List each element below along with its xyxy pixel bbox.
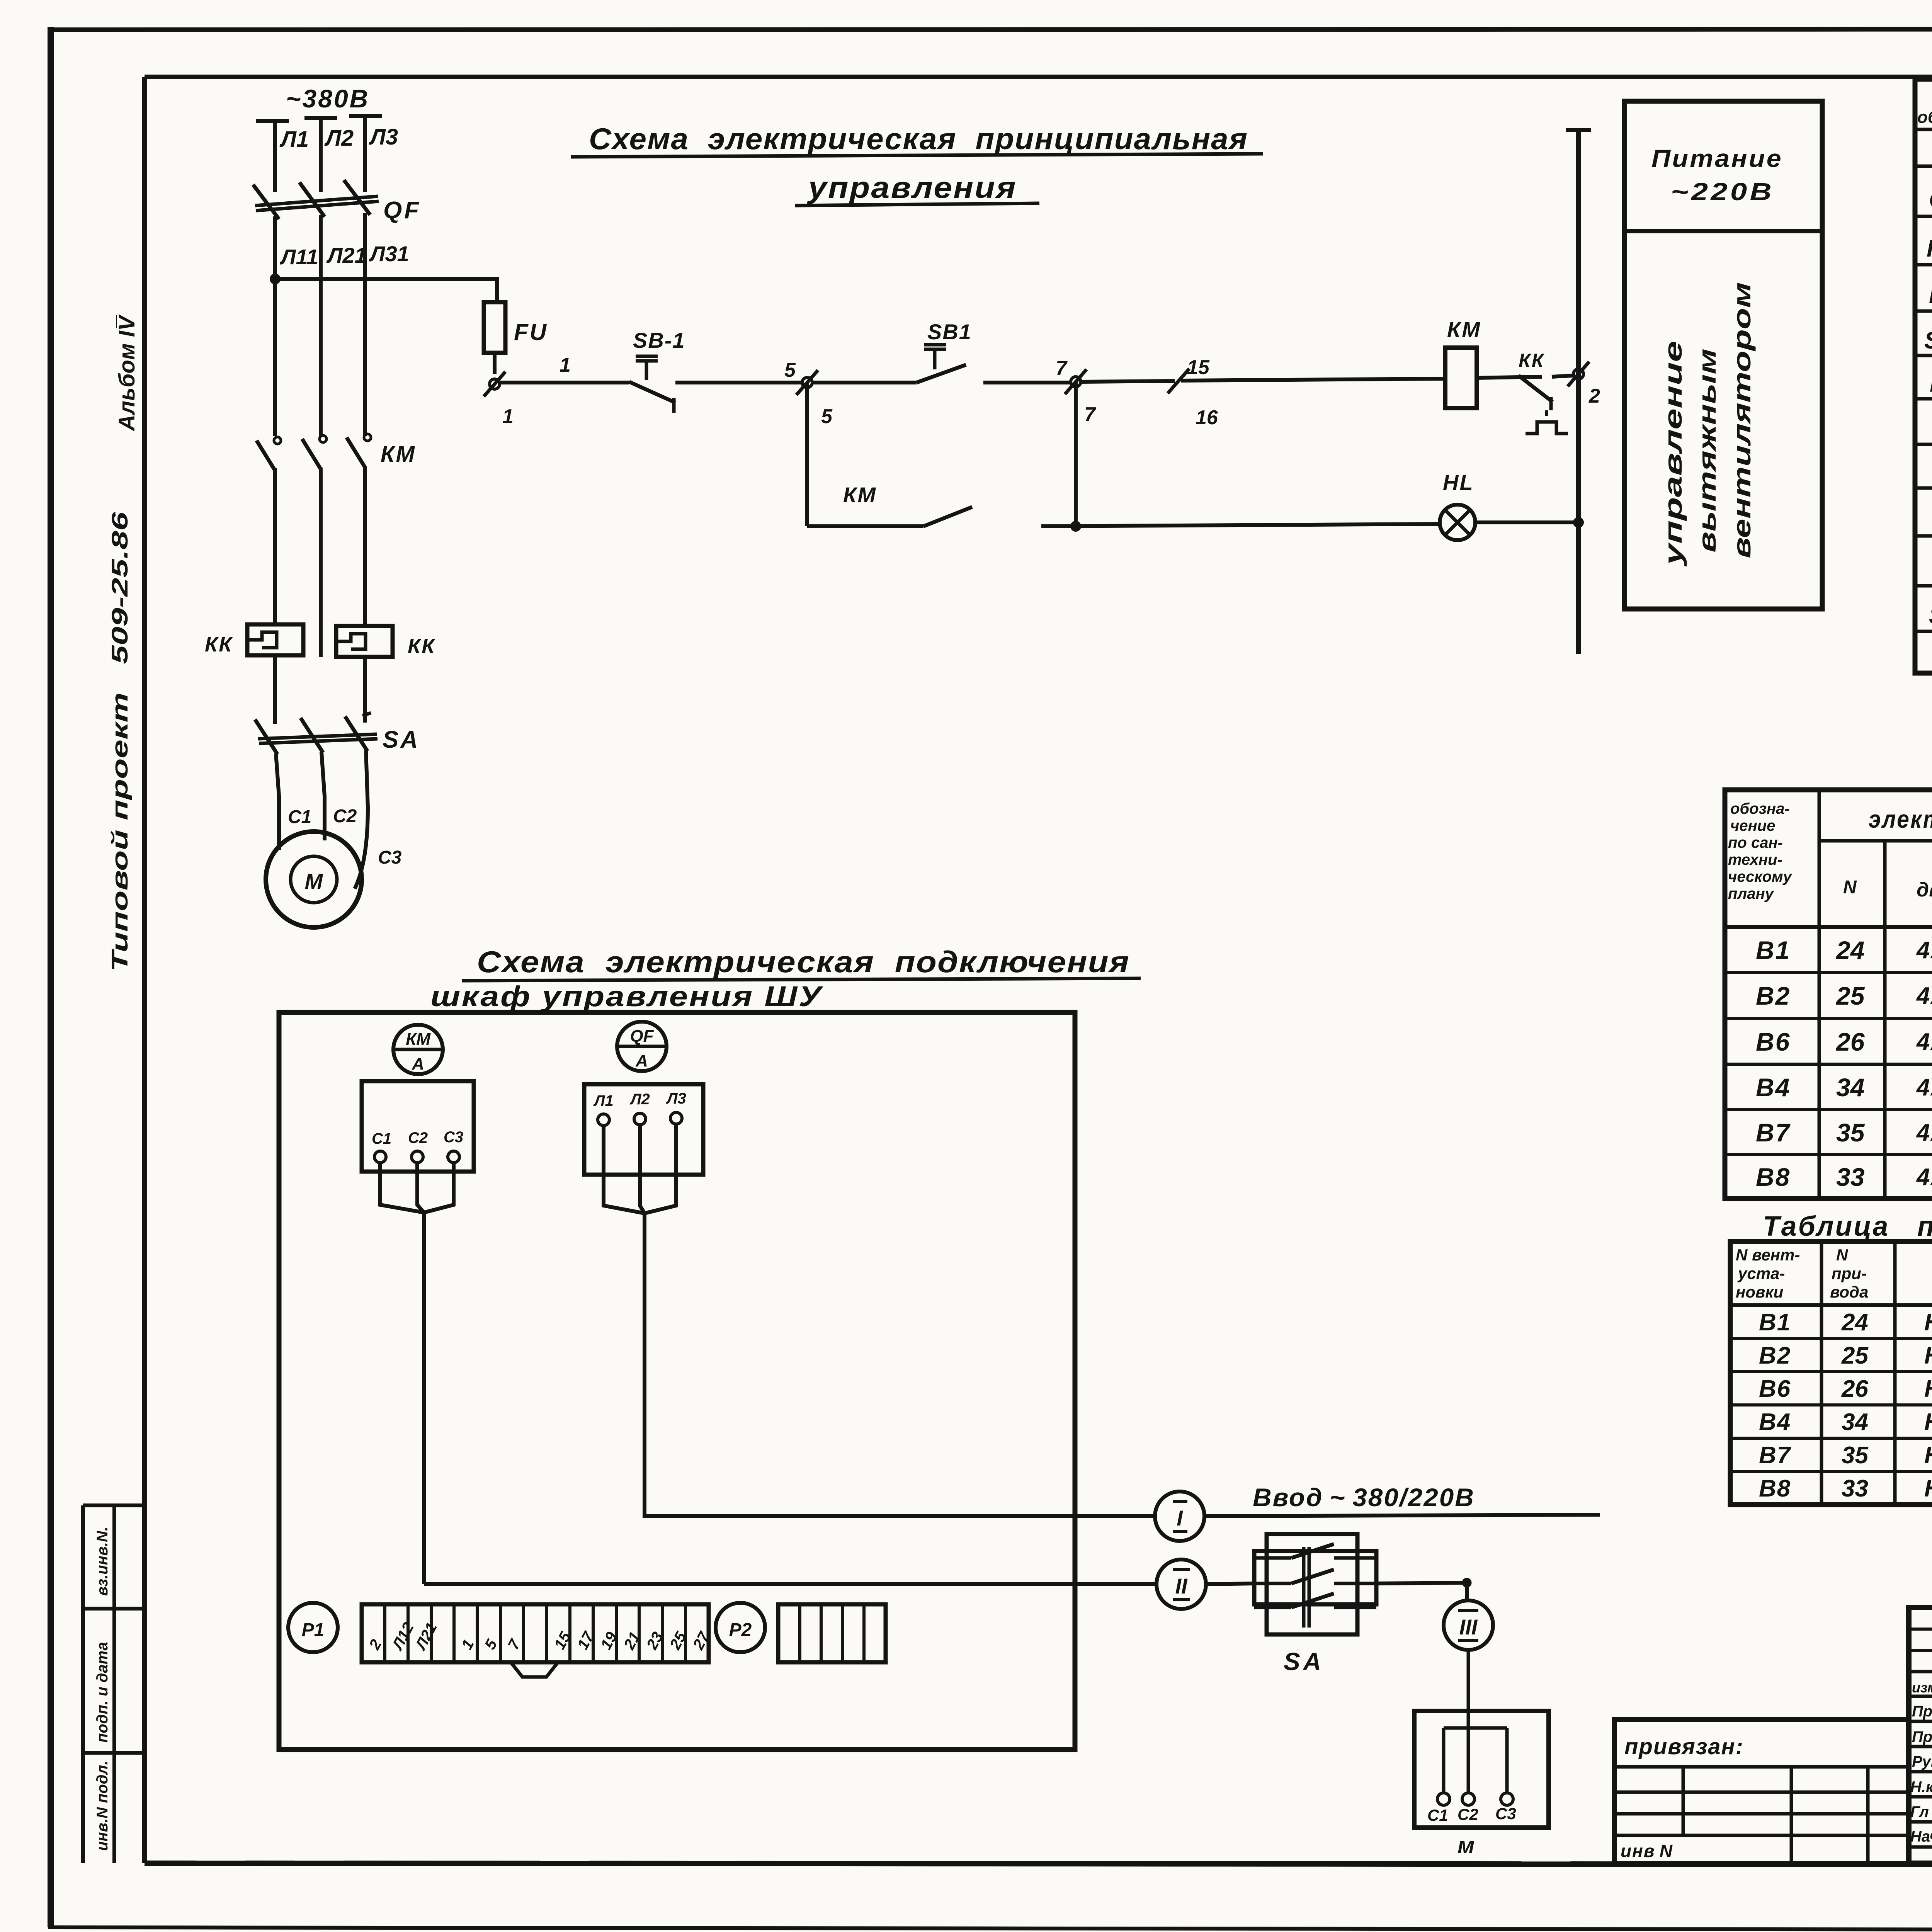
svg-text:Н25-1: Н25-1	[1924, 1342, 1932, 1369]
wire KM out (feeder II)	[424, 1582, 1157, 1586]
wire phase A lower	[273, 655, 277, 724]
svg-text:Альбом IV̅: Альбом IV̅	[114, 314, 139, 432]
svg-text:QF: QF	[1929, 187, 1932, 213]
cable row В6	[1759, 1376, 1932, 1402]
phase feeder L1	[256, 121, 309, 192]
svg-text:КМ: КМ	[1927, 235, 1932, 262]
cable marker KM/A	[393, 1025, 443, 1074]
application row В1	[1756, 927, 1932, 972]
svg-text:управление: управление	[1659, 341, 1687, 567]
supply box Pitanie ~220V	[1624, 101, 1822, 609]
svg-text:4АА63АЧ: 4АА63АЧ	[1916, 1029, 1932, 1055]
svg-text:А: А	[635, 1051, 648, 1070]
svg-text:Н24-1: Н24-1	[1924, 1309, 1932, 1336]
svg-text:Л21: Л21	[326, 243, 367, 267]
svg-text:С2: С2	[408, 1129, 428, 1146]
wire node5 to SB1	[812, 381, 917, 384]
svg-text:Гл спец: Гл спец	[1910, 1803, 1932, 1820]
svg-text:Питание: Питание	[1651, 145, 1783, 172]
wire lower branch left drop	[805, 383, 809, 526]
wire C3 to motor	[355, 750, 402, 889]
svg-text:25: 25	[1835, 981, 1865, 1010]
cable marker QF/A	[617, 1022, 667, 1071]
switch SA (3-pole)	[255, 713, 420, 754]
terminal strip 1	[362, 1604, 713, 1677]
svg-text:16: 16	[1196, 406, 1218, 429]
svg-text:КМ: КМ	[406, 1030, 431, 1049]
node 7	[1056, 357, 1096, 426]
spec row SA	[1929, 590, 1932, 634]
svg-text:15: 15	[1187, 356, 1210, 379]
wire C1 to motor	[276, 753, 311, 850]
svg-text:5: 5	[784, 359, 796, 381]
svg-text:N вент-: N вент-	[1736, 1246, 1800, 1264]
svg-text:Р1: Р1	[302, 1620, 325, 1640]
svg-text:1: 1	[560, 354, 571, 376]
specification table grid	[1915, 79, 1932, 673]
contactor main contacts KM	[257, 434, 416, 471]
svg-text:Л1: Л1	[593, 1092, 614, 1109]
svg-text:В6: В6	[1759, 1376, 1791, 1402]
svg-text:подп. и дата: подп. и дата	[94, 1642, 111, 1743]
svg-text:по сан-: по сан-	[1728, 834, 1783, 851]
svg-text:4АА63АЧ: 4АА63АЧ	[1916, 937, 1932, 964]
wire control feed to FU	[275, 279, 497, 302]
application table column headers	[1728, 794, 1932, 927]
svg-text:N: N	[1843, 877, 1857, 898]
svg-text:КК: КК	[1519, 350, 1545, 371]
svg-text:Н33-1: Н33-1	[1924, 1475, 1932, 1502]
wires KM box to bus	[380, 1163, 454, 1213]
svg-text:В8: В8	[1759, 1475, 1791, 1502]
cable marker II	[1156, 1560, 1206, 1609]
svg-text:Л31: Л31	[369, 241, 409, 266]
wire KM down	[422, 1213, 426, 1584]
svg-text:Л2: Л2	[324, 126, 354, 151]
svg-text:обозна-: обозна-	[1730, 800, 1790, 817]
svg-text:QF: QF	[630, 1027, 654, 1046]
spec row QF	[1929, 173, 1932, 217]
circuit breaker QF (3-pole)	[253, 180, 421, 224]
svg-text:инв N: инв N	[1621, 1841, 1673, 1861]
svg-text:техни-: техни-	[1728, 851, 1782, 868]
wire SB-1 to node 5	[675, 381, 802, 384]
svg-text:24: 24	[1841, 1309, 1868, 1336]
svg-text:Таблица применения для каб: Таблица применения для кабелей	[1763, 1211, 1932, 1242]
svg-text:~380В: ~380В	[286, 84, 369, 113]
svg-text:чение: чение	[1730, 817, 1775, 834]
packet switch SA	[1254, 1534, 1376, 1675]
svg-text:Н.контр: Н.контр	[1910, 1779, 1932, 1796]
svg-text:SB-1: SB-1	[633, 328, 685, 352]
svg-text:при-: при-	[1832, 1264, 1867, 1282]
wire phase B mid	[319, 468, 323, 657]
svg-text:ческому: ческому	[1728, 868, 1793, 885]
svg-text:SB1: SB1	[927, 320, 972, 344]
svg-text:Схема электрическая подключе: Схема электрическая подключения	[477, 945, 1130, 979]
svg-text:SA: SA	[383, 726, 420, 753]
spec table headers	[1917, 86, 1932, 127]
svg-text:обознач: обознач	[1917, 108, 1932, 127]
wire L11	[275, 216, 318, 436]
svg-text:Н26-1: Н26-1	[1924, 1376, 1932, 1402]
svg-text:QF: QF	[383, 197, 421, 224]
wire vvod 380/220	[1204, 1483, 1600, 1516]
application row В2	[1756, 973, 1932, 1018]
auxiliary contact KM (NO)	[807, 483, 972, 526]
svg-text:Л3: Л3	[369, 124, 398, 150]
terminal box QF	[584, 1084, 703, 1175]
svg-text:4АА63АЧ: 4АА63АЧ	[1916, 1164, 1932, 1190]
svg-text:2: 2	[1588, 385, 1600, 407]
svg-text:С3: С3	[444, 1129, 463, 1146]
svg-text:вытяжным: вытяжным	[1693, 349, 1721, 553]
svg-text:4А71В6: 4А71В6	[1916, 983, 1932, 1009]
svg-text:В6: В6	[1756, 1027, 1791, 1056]
phase feeder L2	[304, 118, 354, 192]
pushbutton SB1 (NO)	[917, 320, 972, 383]
svg-text:Схема электрическая принципи: Схема электрическая принципиальная	[589, 122, 1248, 156]
wire node7 to node 15	[1081, 381, 1175, 382]
wire phase A mid	[273, 468, 277, 624]
svg-text:34: 34	[1836, 1073, 1864, 1102]
right control bus	[1566, 130, 1591, 654]
node junction control tap	[271, 275, 279, 283]
stamp frame	[1909, 1607, 1932, 1863]
svg-text:КК: КК	[408, 634, 436, 658]
cable table headers	[1736, 1246, 1932, 1301]
svg-text:инв.N подл.: инв.N подл.	[94, 1761, 111, 1851]
svg-text:новки: новки	[1736, 1283, 1783, 1301]
svg-text:FU: FU	[514, 319, 548, 345]
cable row В7	[1759, 1442, 1932, 1469]
title line 2: upravleniya	[795, 170, 1039, 206]
svg-text:С3: С3	[378, 847, 402, 868]
svg-text:В1: В1	[1759, 1309, 1791, 1336]
node 1	[484, 372, 514, 428]
svg-text:N: N	[1836, 1246, 1849, 1264]
svg-text:33: 33	[1842, 1475, 1868, 1502]
contactor coil KM	[1445, 317, 1481, 408]
svg-text:Л3: Л3	[666, 1090, 686, 1107]
svg-text:двигателя: двигателя	[1917, 879, 1932, 901]
svg-text:II: II	[1175, 1574, 1188, 1598]
cable table grid	[1730, 1242, 1932, 1505]
cabinet ShU outline	[279, 1012, 1075, 1750]
svg-text:34: 34	[1842, 1409, 1868, 1435]
svg-text:вода: вода	[1830, 1283, 1868, 1301]
svg-text:7: 7	[1084, 403, 1096, 426]
stamp signature rows	[1910, 1702, 1932, 1845]
title: schema electricheskaya principialnaya	[571, 122, 1263, 157]
title: schema electricheskaya podklyucheniya	[462, 945, 1141, 981]
wire III to motor box	[1467, 1650, 1470, 1711]
wire SB1 to node 7	[983, 381, 1071, 384]
svg-text:4А71АЧ: 4А71АЧ	[1916, 1119, 1932, 1146]
spec row SB1	[1924, 313, 1932, 357]
wire node15 to KM coil	[1181, 379, 1445, 381]
svg-text:Л2: Л2	[629, 1091, 650, 1108]
svg-text:м: м	[1458, 1832, 1475, 1858]
svg-text:В1: В1	[1756, 936, 1791, 964]
svg-text:26: 26	[1841, 1376, 1868, 1402]
cable marker I	[1155, 1492, 1204, 1541]
svg-text:Ввод ~ 380/220В: Ввод ~ 380/220В	[1253, 1483, 1475, 1512]
svg-text:шкаф управления ШУ: шкаф управления ШУ	[430, 980, 823, 1012]
application row В8	[1756, 1154, 1932, 1199]
spec row FU	[1929, 268, 1932, 312]
wire phase C lower	[363, 657, 367, 723]
svg-text:С2: С2	[1458, 1805, 1478, 1823]
application row В4	[1756, 1064, 1932, 1109]
application table grid	[1725, 790, 1932, 1199]
svg-text:уста-: уста-	[1737, 1264, 1785, 1282]
svg-text:С1: С1	[1427, 1806, 1448, 1824]
fuse FU	[484, 302, 548, 374]
svg-text:Нач.отд: Нач.отд	[1910, 1828, 1932, 1845]
svg-text:33: 33	[1836, 1163, 1864, 1191]
wire 1 (FU to SB-1)	[499, 354, 629, 383]
stamp header row	[1912, 1678, 1932, 1696]
svg-text:24: 24	[1835, 936, 1864, 964]
svg-text:I: I	[1177, 1506, 1183, 1530]
svg-text:FU: FU	[1929, 282, 1932, 308]
svg-text:HL: HL	[1443, 470, 1474, 495]
wire C2 to motor	[321, 752, 357, 840]
node 2 on right bus	[1568, 362, 1600, 407]
svg-text:электропривод: электропривод	[1869, 805, 1932, 833]
terminal strip 2	[778, 1604, 886, 1662]
svg-text:В7: В7	[1759, 1442, 1791, 1469]
wire II to SA	[1206, 1583, 1254, 1584]
svg-text:7: 7	[1056, 357, 1068, 379]
svg-text:М: М	[305, 869, 323, 893]
svg-text:Л11: Л11	[279, 245, 318, 269]
thermal relay heater KK (left)	[205, 624, 303, 656]
svg-text:III: III	[1459, 1615, 1478, 1639]
terminal box KM	[362, 1081, 474, 1172]
svg-text:Провер.: Провер.	[1912, 1728, 1932, 1745]
cable marker III	[1444, 1600, 1493, 1650]
svg-text:С1: С1	[288, 807, 311, 827]
svg-text:КК: КК	[205, 633, 233, 656]
svg-text:25: 25	[1841, 1342, 1869, 1369]
thermal contact KK (NC)	[1477, 350, 1573, 434]
svg-text:вз.инв.N.: вз.инв.N.	[94, 1527, 111, 1596]
svg-text:плану: плану	[1728, 885, 1774, 902]
signal lamp HL	[1440, 470, 1475, 540]
cable row В8	[1759, 1475, 1932, 1502]
pushbutton SB-1 (NC)	[629, 328, 685, 413]
motor terminal box	[1414, 1711, 1549, 1828]
svg-text:изм.лист: изм.лист	[1912, 1680, 1932, 1696]
svg-text:С3: С3	[1495, 1804, 1516, 1823]
svg-text:SA: SA	[1929, 602, 1932, 629]
svg-text:Рук.гр.: Рук.гр.	[1912, 1753, 1932, 1770]
svg-text:В7: В7	[1756, 1118, 1791, 1147]
svg-text:Н34-1: Н34-1	[1924, 1409, 1932, 1435]
svg-text:В2: В2	[1756, 981, 1791, 1010]
node 5	[784, 359, 833, 428]
wire SA to III	[1376, 1579, 1470, 1600]
svg-text:В4: В4	[1759, 1409, 1791, 1435]
node 15/16	[1168, 356, 1218, 429]
svg-text:26: 26	[1835, 1027, 1865, 1056]
wire L31	[365, 213, 409, 436]
svg-text:Типовой проект 509-25.86: Типовой проект 509-25.86	[107, 512, 133, 972]
application row В6	[1756, 1019, 1932, 1064]
svg-text:управления: управления	[807, 170, 1017, 204]
spec row HL	[1930, 357, 1932, 406]
svg-text:В8: В8	[1756, 1163, 1791, 1191]
svg-text:Проект.: Проект.	[1912, 1703, 1932, 1720]
wires QF box to bus	[604, 1124, 676, 1213]
wire node7 drop	[1072, 382, 1080, 530]
svg-text:Н35-1: Н35-1	[1924, 1442, 1932, 1469]
svg-text:Л1: Л1	[279, 127, 309, 152]
svg-text:HL: HL	[1930, 371, 1932, 397]
terminal marker P1	[288, 1603, 338, 1652]
svg-text:привязан:: привязан:	[1624, 1734, 1744, 1759]
svg-text:1: 1	[502, 405, 514, 428]
phase feeder L3	[349, 116, 398, 192]
cable row В2	[1759, 1342, 1932, 1369]
terminal marker P2	[716, 1603, 765, 1652]
wire phase C mid	[363, 466, 367, 626]
svg-text:А: А	[412, 1054, 424, 1073]
svg-text:35: 35	[1842, 1442, 1869, 1469]
application row В7	[1756, 1109, 1932, 1155]
wire lower branch to lamp	[1041, 524, 1440, 526]
cable row В4	[1759, 1409, 1932, 1435]
svg-text:SB1: SB1	[1924, 327, 1932, 354]
svg-text:5: 5	[821, 405, 833, 428]
spec row KM	[1927, 222, 1932, 266]
svg-text:В4: В4	[1756, 1073, 1791, 1102]
privyazan grid	[1614, 1719, 1909, 1863]
cable row В1	[1759, 1309, 1932, 1336]
motor M	[266, 832, 362, 927]
left margin stamp boxes	[83, 1505, 145, 1863]
wire lamp to bus	[1475, 519, 1582, 526]
svg-text:КМ: КМ	[1447, 317, 1481, 342]
svg-text:Р2: Р2	[729, 1620, 752, 1640]
wire QF down and out (feeder I)	[645, 1213, 1155, 1516]
svg-text:вентилятором: вентилятором	[1728, 282, 1756, 558]
thermal relay heater KK (right)	[336, 626, 436, 658]
wire L21	[321, 215, 367, 436]
svg-text:4А80АЧ: 4А80АЧ	[1916, 1074, 1932, 1101]
svg-text:~220В: ~220В	[1671, 178, 1774, 206]
svg-text:КМ: КМ	[381, 442, 416, 467]
svg-text:35: 35	[1836, 1118, 1865, 1147]
svg-text:SA: SA	[1284, 1648, 1324, 1675]
svg-text:С2: С2	[333, 806, 357, 827]
svg-text:КМ: КМ	[843, 483, 877, 507]
svg-text:В2: В2	[1759, 1342, 1791, 1369]
svg-text:С1: С1	[372, 1130, 391, 1147]
